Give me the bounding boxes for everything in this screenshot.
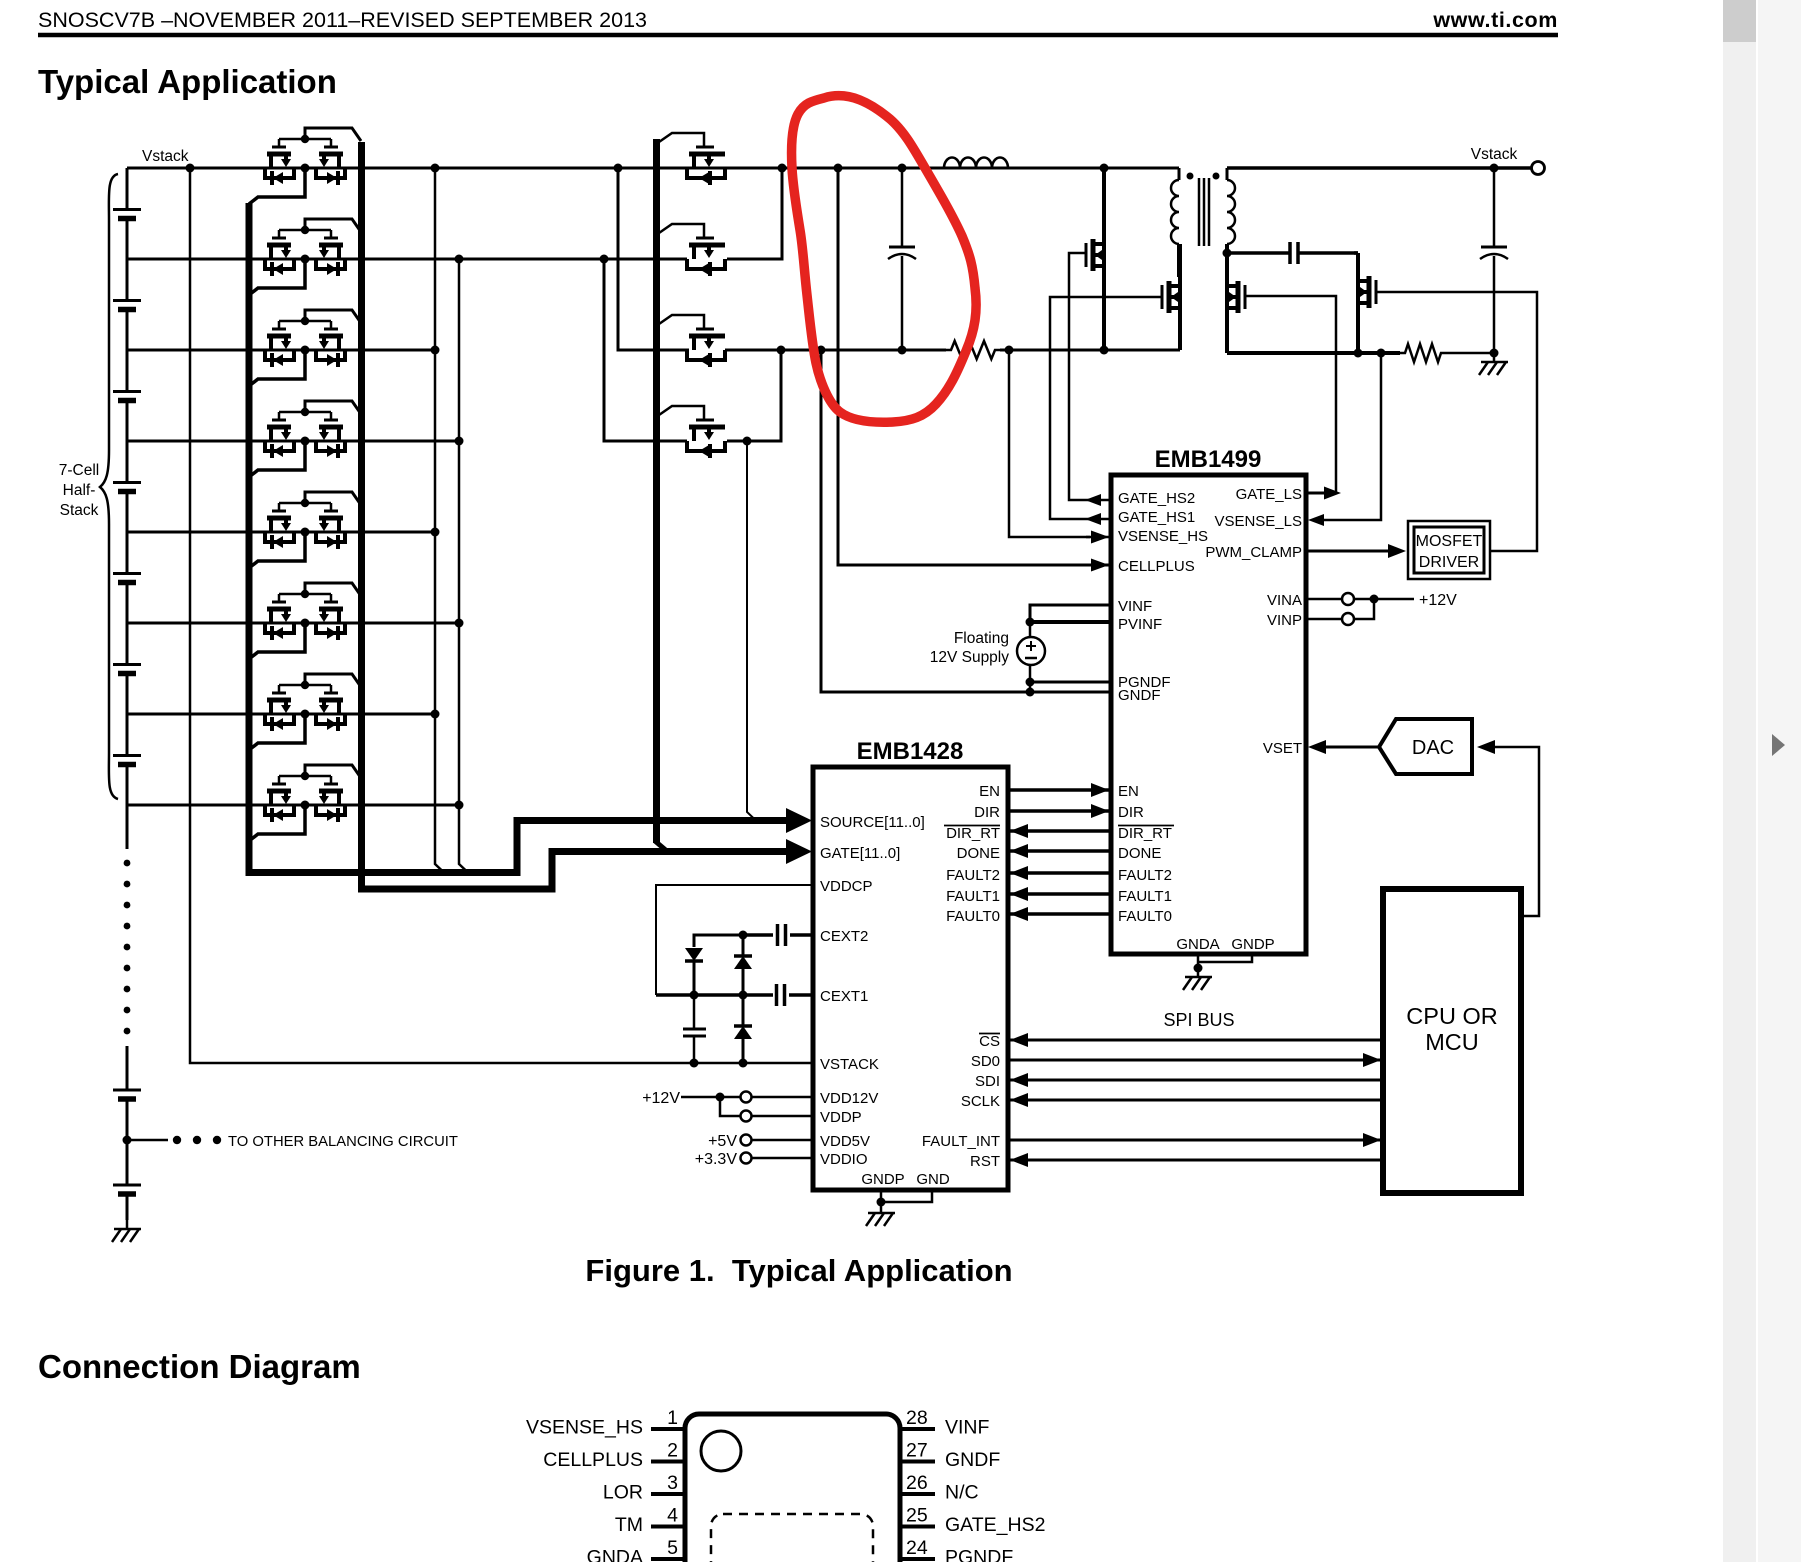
svg-text:FAULT2: FAULT2 [1118,867,1172,884]
transistor HS2 [1085,243,1088,267]
wire VDDCP [656,885,812,995]
wire EN [1008,788,1111,792]
svg-text:DIR: DIR [974,804,1000,821]
CPU OR MCU box [1383,889,1521,1193]
wire cell rail 7 [127,713,435,716]
svg-text:+5V: +5V [708,1133,737,1150]
battery cell B7 [113,754,141,757]
svg-text:GNDF: GNDF [945,1449,1000,1471]
svg-text:Figure 1. Typical Application: Figure 1. Typical Application [585,1253,1012,1288]
svg-text:VINA: VINA [1267,592,1302,609]
battery cell B8 [113,1089,141,1092]
wire M2 drain riser [727,168,782,259]
svg-text:28: 28 [906,1407,928,1429]
svg-text:+3.3V: +3.3V [695,1151,738,1168]
svg-text:FAULT0: FAULT0 [1118,908,1172,925]
transistor pair Q9/Q10 [279,502,331,505]
brace 7-cell [100,174,118,799]
svg-text:DRIVER: DRIVER [1419,554,1479,571]
svg-text:GNDA: GNDA [587,1547,643,1562]
wire cell rail 2 [127,258,687,261]
transformer phase dots [1187,173,1194,180]
svg-text:GNDP: GNDP [1231,936,1274,953]
pin 28 VINF [900,1427,935,1431]
transistor pair Q15/Q16 [279,775,331,778]
arrow VSENSE_HS [1091,531,1109,544]
pin 26 N/C [900,1492,935,1496]
svg-text:DONE: DONE [957,845,1000,862]
source V1 floating 12V supply [1029,622,1032,637]
wire DIR [1008,809,1111,813]
pin 1 VSENSE_HS [651,1427,685,1431]
svg-text:TO OTHER BALANCING CIRCUIT: TO OTHER BALANCING CIRCUIT [228,1134,458,1150]
svg-text:4: 4 [667,1505,678,1527]
svg-text:GNDA: GNDA [1176,936,1219,953]
svg-text:Connection Diagram: Connection Diagram [38,1348,361,1385]
ground EMB1499 [1197,968,1200,977]
svg-text:Half-: Half- [63,482,96,499]
wire VINP [1306,618,1342,621]
pin 27 GNDF [900,1460,935,1464]
svg-text:FAULT1: FAULT1 [1118,888,1172,905]
wire SDI [1008,1079,1383,1082]
IC dashed pad [711,1514,873,1562]
wire M4 left lead [604,259,687,441]
wire GATE_HS2 net [1069,253,1111,500]
wire CPU to DAC [1495,747,1539,916]
resistor R2 [1400,344,1446,362]
diode D3 [742,995,745,1026]
wire DONE [1008,849,1111,853]
wire cell rail 4 [127,440,459,443]
bus SOURCE bundle (left thick) [249,203,786,873]
wire rail1 to transformer [1008,167,1179,170]
wire GATE_LS net [1245,296,1336,493]
svg-text:DIR_RT: DIR_RT [1118,825,1172,842]
transistor LS-R [1375,280,1378,304]
transistor pair Q11/Q12 [279,593,331,596]
svg-text:1: 1 [667,1407,678,1429]
svg-text:GNDP: GNDP [861,1171,904,1188]
svg-text:SNOSCV7B –NOVEMBER 2011–REVISE: SNOSCV7B –NOVEMBER 2011–REVISED SEPTEMBE… [38,8,647,32]
capacitor C3 output [1493,168,1496,247]
DAC symbol [1379,719,1472,774]
wire secondary bottom net [1227,251,1290,255]
wire M4 to SOURCE bundle [747,441,756,821]
svg-text:VDDCP: VDDCP [820,878,873,895]
capacitor CEXT1 [656,993,773,997]
wire PGNDF [1030,681,1111,684]
transistor pair Q5/Q6 [279,320,331,323]
pin 5 GNDA [651,1557,685,1561]
svg-text:VSENSE_LS: VSENSE_LS [1214,513,1302,530]
wire Vstack sense down to VSTACK pin [190,168,812,1063]
transformer T1 primary [1171,180,1179,244]
ground bottom-left [126,1220,129,1229]
svg-text:MOSFET: MOSFET [1416,533,1483,550]
annotation red circle [792,96,977,423]
svg-text:VDD5V: VDD5V [820,1133,870,1150]
wire DIR_RT [1008,829,1111,833]
svg-text:VSENSE_HS: VSENSE_HS [526,1417,643,1439]
svg-text:+12V: +12V [1419,592,1457,609]
transistor pair Q3/Q4 [279,229,331,232]
svg-text:SD0: SD0 [971,1053,1000,1070]
ground output [1493,353,1496,362]
wire odd-rail column x435 [435,168,444,873]
svg-text:2: 2 [667,1440,678,1462]
pin 3 LOR [651,1492,685,1496]
wire cell rail 1 [127,167,1179,170]
svg-text:VINF: VINF [945,1417,990,1439]
dots stack continuation [124,860,131,867]
node Vstack right terminal [1532,162,1545,175]
wire +12V to VDD12V [681,1096,740,1099]
svg-text:RST: RST [970,1153,1000,1170]
arrow CELLPLUS [1091,559,1109,572]
svg-text:27: 27 [906,1440,928,1462]
transistor pair Q1/Q2 [279,138,331,141]
svg-text:N/C: N/C [945,1482,979,1504]
svg-text:VINF: VINF [1118,598,1152,615]
svg-text:CEXT1: CEXT1 [820,988,868,1005]
svg-text:SDI: SDI [975,1073,1000,1090]
wire FAULT_INT [1008,1139,1383,1142]
svg-text:3: 3 [667,1472,678,1494]
svg-text:Floating: Floating [954,630,1009,647]
wire FAULT1 [1008,892,1111,896]
wire HS1 source [1178,308,1182,350]
svg-text:VSENSE_HS: VSENSE_HS [1118,528,1208,545]
svg-text:LOR: LOR [603,1482,643,1504]
svg-text:SCLK: SCLK [961,1093,1000,1110]
battery cell B9 [113,1184,141,1187]
arrow GATE_HS1 [1085,513,1101,525]
svg-text:12V Supply: 12V Supply [930,649,1010,666]
wire +3.3V to VDDIO [741,1153,752,1164]
op-amp U2 EMB1499 box [1111,475,1306,954]
side panel [1758,0,1801,1562]
node VSTACK junctions [690,1059,699,1068]
IC package body [685,1414,900,1562]
inductor L1 [944,158,1008,169]
battery cell B1 [113,208,141,211]
arrow GATE_HS2 [1085,494,1101,506]
pin 25 GATE_HS2 [900,1525,935,1529]
bus GATE bundle (right thick) [362,142,787,889]
svg-text:5: 5 [667,1537,678,1559]
svg-text:24: 24 [906,1537,928,1559]
ground EMB1428 [880,1204,883,1213]
wire VINA [1306,598,1342,601]
svg-text:EN: EN [979,783,1000,800]
svg-text:FAULT2: FAULT2 [946,867,1000,884]
svg-text:PVINF: PVINF [1118,616,1162,633]
bus mid gate bundle [653,139,660,843]
wire FAULT2 [1008,871,1111,875]
svg-text:Vstack: Vstack [1471,146,1518,163]
wire +5V to VDD5V [741,1135,752,1146]
svg-text:DAC: DAC [1412,737,1454,759]
scrollbar thumb [1723,0,1756,42]
svg-text:MCU: MCU [1425,1029,1479,1055]
wire cell rail 6 [127,622,459,625]
svg-text:CPU OR: CPU OR [1406,1003,1497,1029]
node to-other-balancing junction [123,1136,132,1145]
svg-text:CELLPLUS: CELLPLUS [1118,558,1195,575]
wire VSET [1312,746,1379,749]
transformer T1 core [1198,178,1201,246]
capacitor CEXT2 [743,933,773,937]
svg-text:25: 25 [906,1505,928,1527]
wire GNDF [821,350,1111,692]
svg-text:7-Cell: 7-Cell [59,462,99,479]
wire to bottom battery [126,1046,129,1090]
svg-text:VSTACK: VSTACK [820,1056,879,1073]
wire SCLK [1008,1099,1383,1102]
wire HS1 drain [1178,244,1182,286]
svg-text:FAULT_INT: FAULT_INT [922,1133,1000,1150]
svg-text:GATE_HS1: GATE_HS1 [1118,509,1195,526]
wire HS2 drain [1102,168,1106,244]
transformer T1 secondary [1227,180,1235,244]
arrow GATE into EMB1428 [786,839,812,864]
svg-text:GATE_LS: GATE_LS [1236,486,1302,503]
svg-text:26: 26 [906,1472,928,1494]
svg-text:CS: CS [979,1033,1000,1050]
battery cell B2 [113,299,141,302]
wire driver to LSR gate [1376,292,1537,551]
transistor M4 [659,406,704,420]
svg-text:CEXT2: CEXT2 [820,928,868,945]
wire secondary source net [1227,351,1400,355]
transistor HS1 [1161,285,1164,309]
svg-text:+12V: +12V [642,1090,680,1107]
wire CELLPLUS feeder [838,168,1090,565]
wire GATE_HS1 net [1050,297,1162,519]
scrollbar track [1723,0,1756,1562]
wire RST [1008,1159,1383,1162]
svg-text:EN: EN [1118,783,1139,800]
pin 24 PGNDF [900,1557,935,1561]
wire battery column [126,168,129,210]
svg-text:DIR_RT: DIR_RT [946,825,1000,842]
battery cell B6 [113,663,141,666]
svg-text:CELLPLUS: CELLPLUS [543,1449,643,1471]
transistor M1 [659,133,704,147]
arrow VSENSE_LS [1308,514,1324,526]
svg-text:VSET: VSET [1263,740,1302,757]
node secondary bottom [1223,249,1232,258]
arrow SOURCE into EMB1428 [786,808,812,833]
wire cap to LSR drain [1354,251,1358,255]
wire PWM_CLAMP [1306,550,1400,553]
svg-text:TM: TM [615,1514,643,1536]
header rule [38,33,1558,38]
op-amp U1 EMB1428 box [813,767,1008,1190]
svg-text:EMB1499: EMB1499 [1155,446,1262,473]
wire +12V to VDDP [720,1097,740,1116]
wire M3 left lead [618,168,689,350]
battery cell B3 [113,390,141,393]
MOSFET DRIVER box [1408,521,1490,579]
transistor LS-L [1225,253,1229,286]
svg-text:VDD12V: VDD12V [820,1090,878,1107]
svg-text:VDDIO: VDDIO [820,1151,868,1168]
svg-text:Typical Application: Typical Application [38,63,337,100]
wire HS2 source [1102,266,1106,350]
wire SD0 [1008,1059,1383,1062]
svg-text:Stack: Stack [60,502,99,519]
transistor M2 [659,224,704,238]
wire VSENSE_LS net [1312,353,1381,520]
side panel arrow [1772,734,1785,756]
wire switched net y350 [725,349,946,352]
wire VINF PVINF [1030,605,1111,622]
wire secondary top to Vstack [1227,166,1538,170]
svg-text:FAULT0: FAULT0 [946,908,1000,925]
IC pin1 marker circle [701,1431,741,1471]
wire VSENSE_HS feeder [1009,350,1090,537]
svg-text:DONE: DONE [1118,845,1161,862]
svg-text:FAULT1: FAULT1 [946,888,1000,905]
wire cell rail 8 [127,804,459,807]
diode D1 [694,935,743,947]
capacitor C4 [693,995,696,1029]
wire FAULT0 [1008,912,1111,916]
wire GNDP GND to ground [880,1190,883,1202]
wire even-rail column x459 [459,259,468,873]
wire cell rail 3 [127,349,434,352]
svg-text:PWM_CLAMP: PWM_CLAMP [1205,544,1302,561]
battery cell B5 [113,572,141,575]
wire to other balancing circuit [127,1139,168,1142]
pin 4 TM [651,1525,685,1529]
svg-text:GNDF: GNDF [1118,687,1161,704]
svg-text:www.ti.com: www.ti.com [1432,8,1558,32]
svg-text:SPI BUS: SPI BUS [1163,1010,1234,1030]
transistor pair Q7/Q8 [279,411,331,414]
svg-text:SOURCE[11..0]: SOURCE[11..0] [820,814,925,831]
resistor R1 [946,341,1000,359]
capacitor C1 (circled) [901,168,904,247]
svg-text:EMB1428: EMB1428 [857,738,964,765]
svg-text:VDDP: VDDP [820,1109,862,1126]
svg-text:GND: GND [916,1171,950,1188]
svg-text:DIR: DIR [1118,804,1144,821]
svg-text:GATE[11..0]: GATE[11..0] [820,845,900,862]
svg-text:Vstack: Vstack [142,148,189,165]
svg-text:GATE_HS2: GATE_HS2 [1118,490,1195,507]
wire M4 right riser [727,350,781,441]
svg-text:GATE_HS2: GATE_HS2 [945,1514,1045,1536]
capacitor C2 series [1288,242,1292,264]
wire CS [1008,1039,1383,1042]
diode D2 [742,935,745,956]
wire cell rail 5 [127,531,435,534]
svg-text:PGNDF: PGNDF [945,1547,1013,1562]
transistor M3 [659,315,704,329]
pin 2 CELLPLUS [651,1460,685,1464]
transistor pair Q13/Q14 [279,684,331,687]
wire GNDA GNDP to ground [1197,954,1200,968]
svg-text:VINP: VINP [1267,612,1302,629]
battery cell B4 [113,481,141,484]
